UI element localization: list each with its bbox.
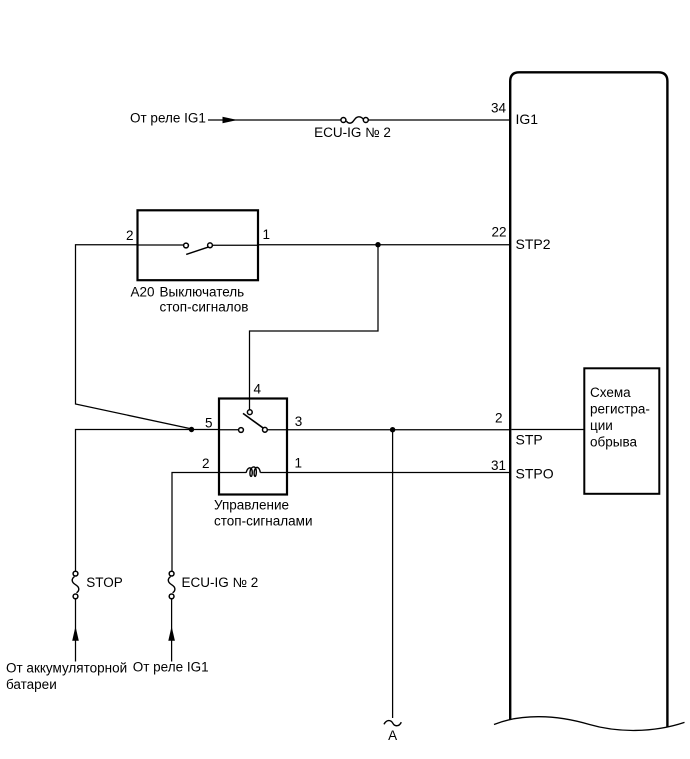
wire: node A drop — [392, 430, 394, 718]
label: Схема регистра-ции обрыва — [590, 385, 650, 450]
svg-text:Выключатель: Выключатель — [160, 285, 245, 300]
wire: relay pin3 to ECU pin 2, net STP — [287, 429, 510, 431]
svg-text:От реле IG1: От реле IG1 — [130, 110, 206, 125]
relay switch arm — [243, 413, 264, 428]
svg-text:ECU-IG № 2: ECU-IG № 2 — [314, 125, 391, 140]
svg-text:34: 34 — [491, 101, 507, 116]
wire: STP2 junction to relay pin 4 — [250, 245, 379, 412]
wire: A20 pin1 internal lead — [212, 244, 258, 246]
wire: IG1 relay feed below bottom fuse — [171, 599, 173, 662]
switch contact circles A20 — [184, 243, 189, 248]
svg-text:22: 22 — [491, 225, 506, 240]
svg-text:регистра-: регистра- — [590, 401, 650, 416]
fuse ECU-IG № 2 (vertical, bottom) — [168, 571, 175, 599]
label: A20 Выключатель стоп-сигналов — [131, 285, 249, 315]
torn edge wave of ECU bottom — [494, 717, 685, 731]
junction at relay pin 5 node — [189, 427, 194, 432]
svg-text:батареи: батареи — [6, 677, 57, 692]
arrow: feed from IG1 relay (up) — [168, 626, 175, 640]
svg-text:1: 1 — [263, 227, 271, 242]
svg-text:обрыва: обрыва — [590, 434, 637, 449]
coil of relay — [246, 467, 260, 477]
svg-text:STOP: STOP — [86, 575, 123, 590]
arrow: current direction into IG1 wire — [223, 117, 238, 123]
wire: relay pin1 to ECU pin 31, net STPO — [287, 472, 510, 474]
svg-text:A20: A20 — [131, 285, 155, 300]
svg-text:2: 2 — [495, 411, 503, 426]
svg-text:От аккумуляторной: От аккумуляторной — [6, 661, 127, 676]
svg-text:От реле IG1: От реле IG1 — [133, 660, 209, 675]
relay box: stop light control — [219, 399, 287, 495]
wire: battery feed below STOP fuse — [75, 599, 77, 662]
wire: relay pin2 internal lead to coil — [219, 472, 246, 474]
svg-text:2: 2 — [202, 456, 210, 471]
svg-text:STP2: STP2 — [516, 236, 551, 252]
wire: coil to relay pin1 — [260, 472, 287, 474]
svg-text:2: 2 — [126, 228, 134, 243]
box: Схема регистрации обрыва — [584, 368, 659, 494]
wire: relay pin2 to ECU-IG feed — [172, 473, 219, 572]
label: От аккумуляторной батареи — [6, 661, 127, 693]
wire: STP into detection box — [512, 429, 585, 431]
svg-text:31: 31 — [491, 458, 506, 473]
wire: A20 pin2 internal lead — [138, 244, 184, 246]
svg-text:1: 1 — [295, 456, 303, 471]
switch arm A20 (open) — [186, 247, 208, 254]
wire: relay pin3 internal lead — [268, 429, 288, 431]
relay contact circles — [247, 410, 252, 415]
switch box A20 — [138, 210, 259, 280]
svg-text:4: 4 — [254, 382, 262, 397]
fuse ECU-IG № 2 (horizontal) — [341, 117, 368, 123]
junction on STP2 wire — [375, 242, 380, 247]
arrow: feed from battery (up) — [72, 626, 79, 640]
wire: fuse to ECU pin 34 — [368, 119, 510, 121]
svg-text:STPO: STPO — [516, 466, 554, 482]
svg-text:Управление: Управление — [214, 498, 289, 513]
wire: source to fuse, net IG1 — [208, 119, 341, 121]
wire: relay pin5 internal lead — [219, 429, 238, 431]
svg-text:стоп-сигналами: стоп-сигналами — [214, 513, 312, 528]
wire: A20 pin2 down-left with diagonal jog to relay pin 5 node — [76, 245, 192, 429]
svg-text:STP: STP — [516, 432, 543, 448]
label: Управление стоп-сигналами — [214, 498, 312, 529]
svg-text:ции: ции — [590, 418, 613, 433]
wire: STOP feed up to relay pin 5 — [76, 430, 220, 572]
fuse STOP (vertical) — [72, 571, 79, 599]
svg-text:стоп-сигналов: стоп-сигналов — [160, 300, 249, 315]
svg-text:3: 3 — [295, 414, 303, 429]
svg-text:5: 5 — [205, 416, 213, 431]
svg-text:Схема: Схема — [590, 385, 631, 400]
svg-text:IG1: IG1 — [516, 111, 539, 127]
break symbol at node A — [384, 721, 401, 726]
junction on STP wire (node A branch) — [390, 427, 395, 432]
wire: A20 pin1 to ECU pin 22, net STP2 — [258, 244, 510, 246]
ECU outline (rounded, torn bottom) — [510, 72, 667, 727]
svg-text:ECU-IG № 2: ECU-IG № 2 — [182, 575, 259, 590]
svg-text:A: A — [388, 728, 397, 743]
